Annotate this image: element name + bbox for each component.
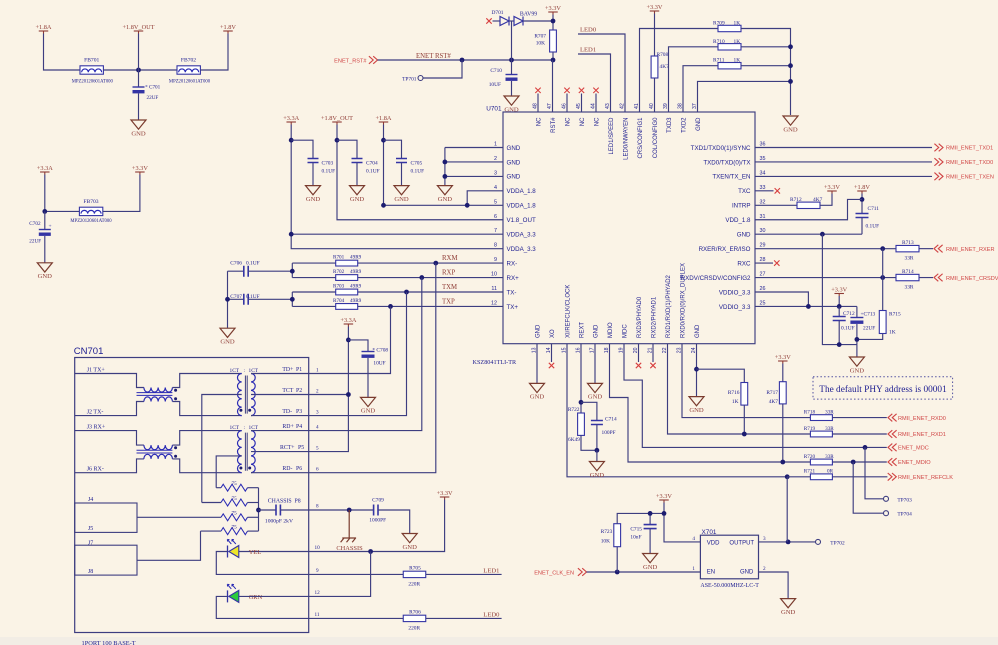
wire R717 bottom xyxy=(782,404,784,462)
svg-text:VDDIO_3.3: VDDIO_3.3 xyxy=(719,289,751,296)
wire choke1 top to T1 xyxy=(172,374,241,388)
svg-text:GND: GND xyxy=(306,196,321,203)
junction RXP xyxy=(419,275,424,280)
power flag +1.8V_OUT xyxy=(134,30,144,32)
inductor choke RX top xyxy=(144,445,173,450)
wire +1.8V_OUT rail xyxy=(337,125,503,220)
wire RXER RXDV tie xyxy=(882,249,884,311)
resistor R719 33R xyxy=(810,431,832,437)
resistor R720 33R xyxy=(810,459,832,465)
svg-text:FB703: FB703 xyxy=(83,199,98,205)
svg-text:+1.8V_OUT: +1.8V_OUT xyxy=(122,24,154,31)
svg-text:MPZ20120601AT000: MPZ20120601AT000 xyxy=(72,80,114,85)
svg-text:GND: GND xyxy=(220,339,235,346)
ground GND osc xyxy=(781,599,796,608)
wire ENET_RST# net xyxy=(378,59,554,61)
junction pin31 tap xyxy=(860,197,865,202)
resistor R710 1K xyxy=(718,44,741,50)
wire led12 tie xyxy=(309,552,371,597)
wire pin29 RXER xyxy=(755,248,896,250)
svg-text:25: 25 xyxy=(760,300,766,306)
svg-text:R722: R722 xyxy=(568,407,580,413)
junction node +1.8V_OUT xyxy=(136,68,141,73)
wire rx common xyxy=(291,263,293,277)
svg-text:5: 5 xyxy=(494,199,497,205)
svg-text:33R: 33R xyxy=(905,256,914,262)
svg-text:J2 TX-: J2 TX- xyxy=(87,409,104,415)
svg-text:+1.8V_OUT: +1.8V_OUT xyxy=(321,115,353,122)
svg-text:VDD: VDD xyxy=(707,541,720,547)
power flag +3.3V reset xyxy=(548,11,558,13)
svg-text:0.1UF: 0.1UF xyxy=(322,169,336,175)
svg-text:R714: R714 xyxy=(902,269,914,275)
svg-text:GND: GND xyxy=(594,324,600,338)
svg-text:TP701: TP701 xyxy=(402,77,417,83)
svg-text:RCT+: RCT+ xyxy=(280,445,295,451)
no-connect X on D701 anode xyxy=(486,18,491,23)
resistor R721 0R xyxy=(810,474,832,480)
power flag +3.3V left xyxy=(135,171,145,173)
svg-text:+: + xyxy=(49,224,52,230)
wire osc gnd xyxy=(759,572,789,599)
wire z1 xyxy=(216,487,221,489)
svg-text:KSZ8041TLI-TR: KSZ8041TLI-TR xyxy=(473,359,518,366)
wire +3.3V to row xyxy=(838,296,840,306)
svg-text:TP702: TP702 xyxy=(830,540,845,546)
svg-text:J1 TX+: J1 TX+ xyxy=(87,367,106,373)
wire R707 to RST row xyxy=(552,52,554,60)
ground GND pin13 xyxy=(530,383,545,392)
junction vddio flag xyxy=(837,304,842,309)
ground GND C709 xyxy=(402,534,417,543)
svg-text:XI/REFCLK/CLOCK: XI/REFCLK/CLOCK xyxy=(566,285,572,338)
svg-text:RX-: RX- xyxy=(507,260,518,267)
wire R716 bottom xyxy=(743,405,745,434)
wire LED1 xyxy=(578,54,611,112)
ground GND C708 xyxy=(361,397,376,406)
wire TP701 xyxy=(423,60,462,78)
wire +1.8A rail xyxy=(384,125,504,206)
svg-text:49R9: 49R9 xyxy=(350,269,362,275)
svg-text:GND: GND xyxy=(643,564,658,571)
svg-text:V1.8_OUT: V1.8_OUT xyxy=(507,217,536,224)
junction R716 RXD1 xyxy=(742,432,747,437)
wire TP704 xyxy=(853,462,883,513)
svg-text:RX+: RX+ xyxy=(507,275,520,282)
svg-text:C714: C714 xyxy=(605,417,617,423)
svg-text:TXD1/TXD0(1)/SYNC: TXD1/TXD0(1)/SYNC xyxy=(691,145,751,152)
svg-text:2: 2 xyxy=(316,388,319,394)
svg-text:100PF: 100PF xyxy=(602,430,616,436)
inductor choke TX core xyxy=(137,393,173,396)
svg-text:GRN: GRN xyxy=(249,594,263,601)
wire pin35 TXD0 xyxy=(755,161,932,163)
wire TCT P2 row xyxy=(251,394,309,396)
svg-text:1: 1 xyxy=(316,367,319,373)
ground GND C706 C707 xyxy=(220,328,235,337)
junction R715 gnd xyxy=(855,337,860,342)
svg-text:10UF: 10UF xyxy=(489,82,501,88)
svg-text:OUTPUT: OUTPUT xyxy=(729,541,754,547)
capacitor C713 22UF xyxy=(856,306,858,317)
junction C714 gnd xyxy=(595,448,600,453)
wire R720 out xyxy=(832,461,886,463)
ground GND pin24 xyxy=(689,397,704,406)
svg-text:GND: GND xyxy=(695,324,701,338)
power flag +1.8A xyxy=(39,30,49,32)
svg-text:NC: NC xyxy=(566,117,572,126)
svg-text:GND: GND xyxy=(131,130,146,137)
svg-text:8: 8 xyxy=(494,243,497,249)
svg-text:12: 12 xyxy=(315,590,321,596)
wire +1.8V_OUT stem xyxy=(138,34,140,71)
wire pins1-3 gnd tie xyxy=(445,147,503,149)
svg-text:RMII_ENET_TXEN: RMII_ENET_TXEN xyxy=(946,175,994,181)
wire LED1 net xyxy=(426,573,502,575)
svg-text:RD+: RD+ xyxy=(282,424,293,430)
transformer T2 secondary xyxy=(251,431,255,473)
svg-text:TD+: TD+ xyxy=(282,367,293,373)
svg-text:XO: XO xyxy=(550,329,556,338)
svg-text:GND: GND xyxy=(536,324,542,338)
svg-text:+3.3V: +3.3V xyxy=(647,4,663,11)
svg-text:D701: D701 xyxy=(492,10,504,16)
power flag +3.3A taps xyxy=(344,323,354,325)
power flag +3.3V config xyxy=(650,10,660,12)
svg-text:48: 48 xyxy=(532,103,538,109)
svg-text:R702: R702 xyxy=(333,269,345,275)
svg-text:10nF: 10nF xyxy=(630,535,641,541)
wire grn anode xyxy=(239,595,309,597)
ferrite bead FB702 xyxy=(177,66,200,74)
svg-text:4K7: 4K7 xyxy=(769,399,779,405)
wire pin24 gnd xyxy=(696,344,698,397)
wire R719 out xyxy=(832,433,886,435)
svg-text:RXM: RXM xyxy=(442,255,458,262)
oscillator X701 body xyxy=(700,535,758,579)
svg-text:46: 46 xyxy=(561,103,567,109)
resistor R702 49R9 xyxy=(336,275,358,281)
svg-text:P2: P2 xyxy=(296,388,302,394)
connector J4 J5 box xyxy=(75,503,137,532)
wire T1 tap xyxy=(202,395,242,503)
svg-text:U701: U701 xyxy=(486,106,502,113)
junction C705 tap xyxy=(381,138,386,143)
svg-text:RMII_ENET_RXD1: RMII_ENET_RXD1 xyxy=(898,432,946,438)
wire TD- P3 row xyxy=(251,415,309,417)
svg-text:TXD0/TXD(0)/TX: TXD0/TXD(0)/TX xyxy=(703,159,750,166)
svg-text:9: 9 xyxy=(316,568,319,574)
svg-text:VDDA_3.3: VDDA_3.3 xyxy=(507,232,537,239)
wire FB702 to +1.8V xyxy=(200,34,228,71)
wire CRS strap row xyxy=(640,29,718,113)
junction R710 rail xyxy=(788,44,793,49)
wire RD+ P4 row xyxy=(251,430,309,432)
junction pin24 xyxy=(694,367,699,372)
wire grn cathode xyxy=(216,596,308,618)
pin14 XO stub xyxy=(551,344,553,362)
wire to gnd xyxy=(596,450,598,461)
svg-text:2: 2 xyxy=(494,156,497,162)
svg-text:C706: C706 xyxy=(230,261,242,267)
svg-text:P3: P3 xyxy=(296,409,302,415)
junction TXM xyxy=(404,290,409,295)
junction RXDV tie xyxy=(880,275,885,280)
svg-text:LED0: LED0 xyxy=(580,27,597,34)
junction C708 tap xyxy=(346,338,351,343)
wire R716 top xyxy=(697,369,745,382)
svg-text:RXER/RX_ER/ISO: RXER/RX_ER/ISO xyxy=(699,246,751,253)
wire pin37 GND row xyxy=(698,81,791,112)
junction z common xyxy=(256,508,261,513)
connector CN701 body xyxy=(75,358,309,633)
ground GND strap rail xyxy=(783,116,798,125)
svg-text:10: 10 xyxy=(491,272,497,278)
resistor R708 4K7 xyxy=(651,56,658,78)
LED GRN xyxy=(229,590,239,602)
svg-text:6K49: 6K49 xyxy=(568,437,580,443)
svg-text:RST#: RST# xyxy=(551,117,557,133)
pin 48 NC stub xyxy=(537,94,539,113)
power flag +1.8A mid xyxy=(379,121,389,123)
wire pin18 MDIO xyxy=(610,344,783,462)
ground GND C701 xyxy=(131,120,146,129)
wire J2 xyxy=(75,402,144,416)
svg-text:4: 4 xyxy=(494,185,497,191)
junction C706 xyxy=(290,269,295,274)
svg-text:33: 33 xyxy=(760,185,766,191)
svg-text:ASE-50.000MHZ-LC-T: ASE-50.000MHZ-LC-T xyxy=(700,583,759,589)
wire +3.3A to taps xyxy=(309,327,349,452)
svg-text:R711: R711 xyxy=(713,58,725,64)
wire R723 top rail xyxy=(617,513,664,523)
svg-text:+3.3A: +3.3A xyxy=(37,165,53,172)
svg-text:P5: P5 xyxy=(298,445,304,451)
testpoint TP703 xyxy=(884,496,889,501)
svg-text:RXD2/PHYAD1: RXD2/PHYAD1 xyxy=(652,296,658,338)
svg-text:26: 26 xyxy=(760,286,766,292)
svg-text:REXT: REXT xyxy=(580,322,586,338)
svg-text:RMII_ENET_RXER: RMII_ENET_RXER xyxy=(946,247,995,253)
svg-text:GND: GND xyxy=(783,126,798,133)
svg-text:R703: R703 xyxy=(333,284,345,290)
svg-text:R716: R716 xyxy=(728,390,740,396)
svg-text:+3.3A: +3.3A xyxy=(283,115,299,122)
svg-text:GND: GND xyxy=(507,159,521,166)
port RMII_ENET_REFCLK xyxy=(888,473,897,481)
svg-text:TX-: TX- xyxy=(507,289,517,296)
resistor R718 33R xyxy=(810,415,832,421)
svg-text:4: 4 xyxy=(692,536,695,542)
svg-text:+3.3V: +3.3V xyxy=(775,354,791,361)
wire pin26 VDDIO xyxy=(755,292,808,306)
svg-text:1K: 1K xyxy=(734,39,741,45)
svg-text:3: 3 xyxy=(316,410,319,416)
svg-text:12: 12 xyxy=(491,300,497,306)
wire RCT+ P5 row xyxy=(251,451,309,453)
svg-text:+3.3V: +3.3V xyxy=(824,184,840,191)
junction C703 tap xyxy=(289,138,294,143)
junction GND row rail xyxy=(788,79,793,84)
svg-text:GND: GND xyxy=(438,196,453,203)
wire pin12 row xyxy=(292,305,335,307)
svg-text:J4: J4 xyxy=(88,497,93,503)
wire C710 to GND xyxy=(511,81,513,96)
ground GND C705 xyxy=(394,186,409,195)
svg-text:45: 45 xyxy=(576,103,582,109)
resistor R717 4K7 xyxy=(779,382,786,404)
wire pin27 RXDV xyxy=(755,277,896,279)
svg-text:MDIO: MDIO xyxy=(608,322,614,338)
svg-text:RXC: RXC xyxy=(737,260,751,267)
wire R710 to gnd rail xyxy=(741,46,791,48)
wire R712 to +3.3V xyxy=(820,194,832,206)
svg-text:47: 47 xyxy=(547,103,553,109)
svg-text:J3 RX+: J3 RX+ xyxy=(87,425,106,431)
junction C707 xyxy=(290,297,295,302)
svg-text:+3.3V: +3.3V xyxy=(656,493,672,500)
svg-text:VDDIO_3.3: VDDIO_3.3 xyxy=(719,304,751,311)
junction MDIO tp xyxy=(851,460,856,465)
svg-text:0.1UF: 0.1UF xyxy=(246,294,260,300)
ferrite bead FB703 xyxy=(79,207,102,215)
ground GND C715 xyxy=(643,554,658,563)
svg-text:+3.3A: +3.3A xyxy=(340,317,356,324)
power flag +3.3V osc xyxy=(659,499,669,501)
wire C701 to GND xyxy=(138,94,140,121)
svg-text:+3.3V: +3.3V xyxy=(831,286,847,293)
svg-text:CHASSIS: CHASSIS xyxy=(336,545,363,552)
svg-text:TD-: TD- xyxy=(282,409,292,415)
svg-text:C703: C703 xyxy=(322,161,334,167)
svg-text:*: * xyxy=(145,85,148,91)
wire yel cathode xyxy=(216,552,308,575)
wire gnd drop xyxy=(822,234,857,344)
svg-text:GND: GND xyxy=(737,232,751,239)
wire R714 out xyxy=(919,277,933,279)
wire C702 to GND xyxy=(44,236,46,263)
wire T2 tap xyxy=(216,456,242,488)
wire choke2 bot to T2 xyxy=(172,459,241,473)
svg-text:GND: GND xyxy=(689,407,704,414)
node note: default PHY address xyxy=(813,377,953,399)
wire LED0 xyxy=(578,34,625,112)
svg-text:220R: 220R xyxy=(408,625,420,631)
wire choke2 top to T2 xyxy=(172,431,241,446)
wire +1.8V to C711 xyxy=(861,194,863,214)
pin 45 NC stub xyxy=(581,94,583,113)
svg-text:37: 37 xyxy=(692,103,698,109)
svg-text:30: 30 xyxy=(760,228,766,234)
wire pin11 row xyxy=(292,291,335,293)
svg-text:11: 11 xyxy=(491,286,497,292)
pin28 RXC stub xyxy=(755,262,773,264)
svg-text:P1: P1 xyxy=(296,367,302,373)
wire R713 out xyxy=(919,248,933,250)
svg-text:1PORT 100 BASE-T: 1PORT 100 BASE-T xyxy=(82,640,136,645)
svg-text:FB702: FB702 xyxy=(181,58,196,64)
wire pin19 MDC xyxy=(624,344,865,448)
svg-text:+1.8A: +1.8A xyxy=(376,115,392,122)
capacitor C705 0.1UF xyxy=(384,140,402,158)
svg-text:J5: J5 xyxy=(88,526,93,532)
svg-text:ENET_MDC: ENET_MDC xyxy=(898,446,929,452)
svg-text:COL/CONFIG0: COL/CONFIG0 xyxy=(653,117,659,158)
junction refclk osc xyxy=(785,474,790,479)
svg-text:GND: GND xyxy=(507,145,521,152)
svg-text:R704: R704 xyxy=(333,298,345,304)
svg-text:* C708: * C708 xyxy=(372,348,388,354)
wire pin22 RXD1 xyxy=(668,344,811,434)
svg-text:GND: GND xyxy=(696,117,702,131)
svg-text:GND: GND xyxy=(350,196,365,203)
svg-text:+1.8V: +1.8V xyxy=(220,24,236,31)
ground GND C703 xyxy=(306,186,321,195)
port ENET_MDC xyxy=(888,444,897,452)
svg-text:LED1: LED1 xyxy=(580,47,596,54)
svg-text:R709: R709 xyxy=(713,21,725,27)
svg-text:RXP: RXP xyxy=(442,270,455,277)
svg-text:RMII_ENET_CRSDV: RMII_ENET_CRSDV xyxy=(946,276,998,282)
wire osc vdd xyxy=(664,503,700,542)
svg-text:C705: C705 xyxy=(411,161,423,167)
svg-text:1: 1 xyxy=(692,566,695,572)
pin 44 NC stub xyxy=(595,94,597,113)
wire choke1 bot to T1 xyxy=(172,402,241,416)
ground GND C702 xyxy=(37,263,52,272)
svg-text:R706: R706 xyxy=(409,610,421,616)
wire pin15 XI refclk xyxy=(567,344,787,477)
svg-text:10K: 10K xyxy=(601,539,610,545)
junction TXP xyxy=(388,304,393,309)
wire TXP drop xyxy=(309,307,391,374)
svg-text:P4: P4 xyxy=(296,424,302,430)
capacitor 1000pF 2kV xyxy=(259,509,277,511)
junction C707 gnd xyxy=(225,297,230,302)
svg-text:NC: NC xyxy=(537,117,543,126)
LED YEL xyxy=(229,546,239,558)
svg-text:RXD1/RXD(1)/PHYAD2: RXD1/RXD(1)/PHYAD2 xyxy=(666,274,672,338)
svg-text:CRS/CONFIG1: CRS/CONFIG1 xyxy=(638,117,644,159)
wire pin13 gnd xyxy=(536,344,538,384)
svg-text:LED0: LED0 xyxy=(483,611,500,618)
wire R723 stem xyxy=(616,547,618,572)
wire MDC out xyxy=(865,446,887,448)
svg-text:J8: J8 xyxy=(88,569,93,575)
ground GND R722 C714 xyxy=(589,462,604,471)
testpoint TP702 xyxy=(816,539,821,544)
svg-text:ENET_CLK_EN: ENET_CLK_EN xyxy=(534,571,574,577)
svg-text:C709: C709 xyxy=(372,497,384,503)
node T1 dots xyxy=(239,409,242,412)
op-amp U701 KSZ8041TLI-TR body xyxy=(503,112,755,344)
pin 46 NC stub xyxy=(566,94,568,113)
junction MDC tp xyxy=(863,445,868,450)
wire J7J8 to z4 xyxy=(137,531,201,560)
svg-text:0.1UF: 0.1UF xyxy=(411,169,425,175)
power flag +3.3V VDDIO xyxy=(834,293,844,295)
resistor R712 4K7 xyxy=(797,202,820,208)
svg-text:ENET RST#: ENET RST# xyxy=(416,53,451,60)
svg-text:C712: C712 xyxy=(843,311,855,317)
transformer T1 secondary xyxy=(251,373,255,415)
resistor R709 1K xyxy=(718,25,741,31)
wire pin4 pin5 tie xyxy=(467,191,503,205)
svg-text:4K7: 4K7 xyxy=(813,197,823,203)
svg-text:4: 4 xyxy=(316,425,319,431)
svg-text:3: 3 xyxy=(763,536,766,542)
svg-text:43: 43 xyxy=(605,103,611,109)
